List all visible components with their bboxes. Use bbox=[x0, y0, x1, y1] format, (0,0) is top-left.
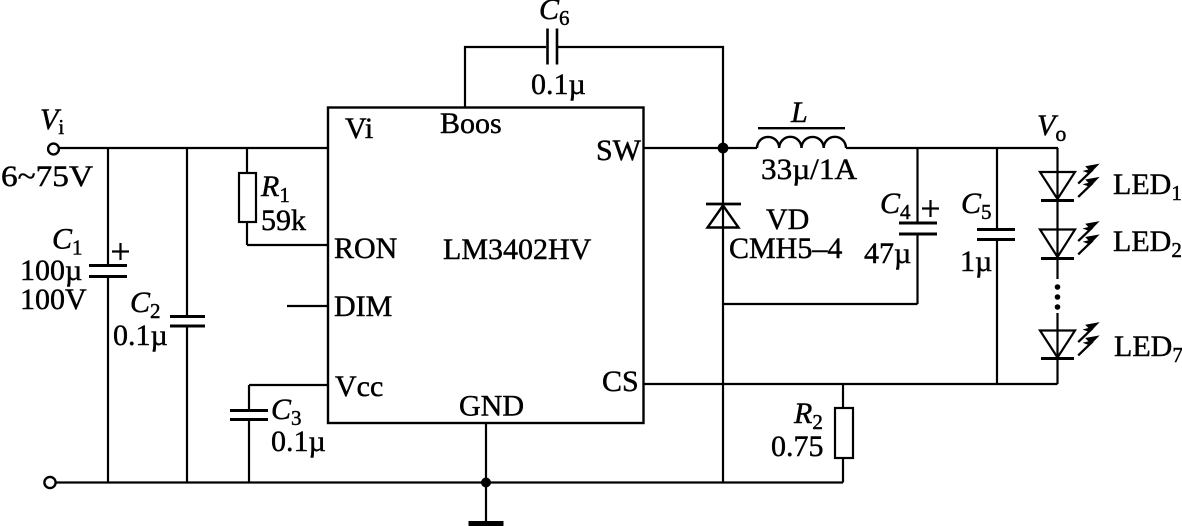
wire DIM stub bbox=[287, 305, 328, 307]
wire L to Vo corner bbox=[846, 147, 1058, 149]
svg-text:LM3402HV: LM3402HV bbox=[443, 233, 592, 266]
svg-text:Vo: Vo bbox=[1037, 109, 1066, 146]
wire Boos to C6 bbox=[465, 47, 546, 108]
node SW junction bbox=[718, 143, 729, 154]
svg-text:CMH5–4: CMH5–4 bbox=[729, 232, 842, 265]
svg-text:C4: C4 bbox=[880, 187, 911, 224]
svg-text:59k: 59k bbox=[261, 204, 306, 237]
svg-text:1µ: 1µ bbox=[960, 245, 992, 278]
svg-text:C5: C5 bbox=[961, 187, 992, 224]
svg-text:0.1µ: 0.1µ bbox=[531, 68, 586, 101]
LED7 bbox=[1040, 313, 1075, 384]
capacitor C6 bbox=[548, 29, 558, 65]
wire top rail Vi to IC bbox=[58, 147, 328, 149]
svg-text:LED1: LED1 bbox=[1113, 168, 1182, 205]
wire GND pin bbox=[485, 423, 487, 521]
terminal bottom-left (open circle) bbox=[44, 477, 55, 488]
arrows LED2 bbox=[1078, 221, 1100, 241]
svg-text:33µ/1A: 33µ/1A bbox=[761, 153, 857, 186]
capacitor C1 bbox=[89, 148, 129, 483]
svg-text:100V: 100V bbox=[20, 283, 87, 316]
wire bottom rail bbox=[55, 481, 843, 483]
LED2 bbox=[1040, 230, 1075, 259]
svg-text:Vcc: Vcc bbox=[335, 370, 383, 403]
svg-text:LED2: LED2 bbox=[1113, 225, 1182, 262]
svg-text:C6: C6 bbox=[539, 0, 570, 30]
capacitor C5 bbox=[977, 148, 1015, 384]
svg-text:SW: SW bbox=[596, 134, 642, 167]
wire C6 to SW node bbox=[558, 47, 723, 148]
svg-text:Vi: Vi bbox=[40, 103, 64, 139]
resistor R2 bbox=[835, 384, 853, 483]
svg-text:RON: RON bbox=[334, 232, 397, 265]
svg-text:47µ: 47µ bbox=[864, 237, 911, 270]
diode VD CMH5-4 bbox=[706, 148, 741, 483]
ground bbox=[469, 521, 504, 526]
inductor L bbox=[757, 128, 846, 148]
LED string vertical wire top bbox=[1056, 148, 1058, 279]
svg-text:0.1µ: 0.1µ bbox=[271, 425, 326, 458]
arrows LED7 bbox=[1078, 322, 1100, 342]
svg-text:L: L bbox=[790, 96, 808, 129]
svg-text:GND: GND bbox=[459, 390, 524, 423]
svg-text:C2: C2 bbox=[130, 286, 161, 323]
svg-text:6~75V: 6~75V bbox=[1, 160, 93, 193]
IC U1 LM3402HV box bbox=[328, 108, 644, 424]
svg-text:0.1µ: 0.1µ bbox=[113, 319, 168, 352]
svg-text:CS: CS bbox=[602, 365, 639, 398]
wire SW pin bbox=[644, 147, 757, 149]
svg-text:0.75: 0.75 bbox=[771, 430, 824, 463]
capacitor C3 bbox=[230, 385, 328, 483]
wire CS line bbox=[644, 383, 1058, 385]
resistor R1 bbox=[239, 148, 328, 245]
arrows LED1 bbox=[1078, 164, 1100, 184]
node GND junction bbox=[481, 478, 491, 488]
svg-text:Vi: Vi bbox=[345, 112, 373, 145]
LED1 bbox=[1040, 172, 1075, 201]
svg-text:DIM: DIM bbox=[334, 290, 392, 323]
svg-text:R2: R2 bbox=[793, 397, 823, 434]
svg-text:Boos: Boos bbox=[440, 107, 502, 140]
terminal Vi (input, open circle) bbox=[48, 144, 59, 155]
capacitor C4 bbox=[723, 148, 939, 304]
svg-text:R1: R1 bbox=[260, 170, 290, 207]
dotted continuation bbox=[1055, 284, 1061, 310]
svg-text:LED7: LED7 bbox=[1114, 330, 1182, 367]
capacitor C2 bbox=[170, 148, 205, 483]
